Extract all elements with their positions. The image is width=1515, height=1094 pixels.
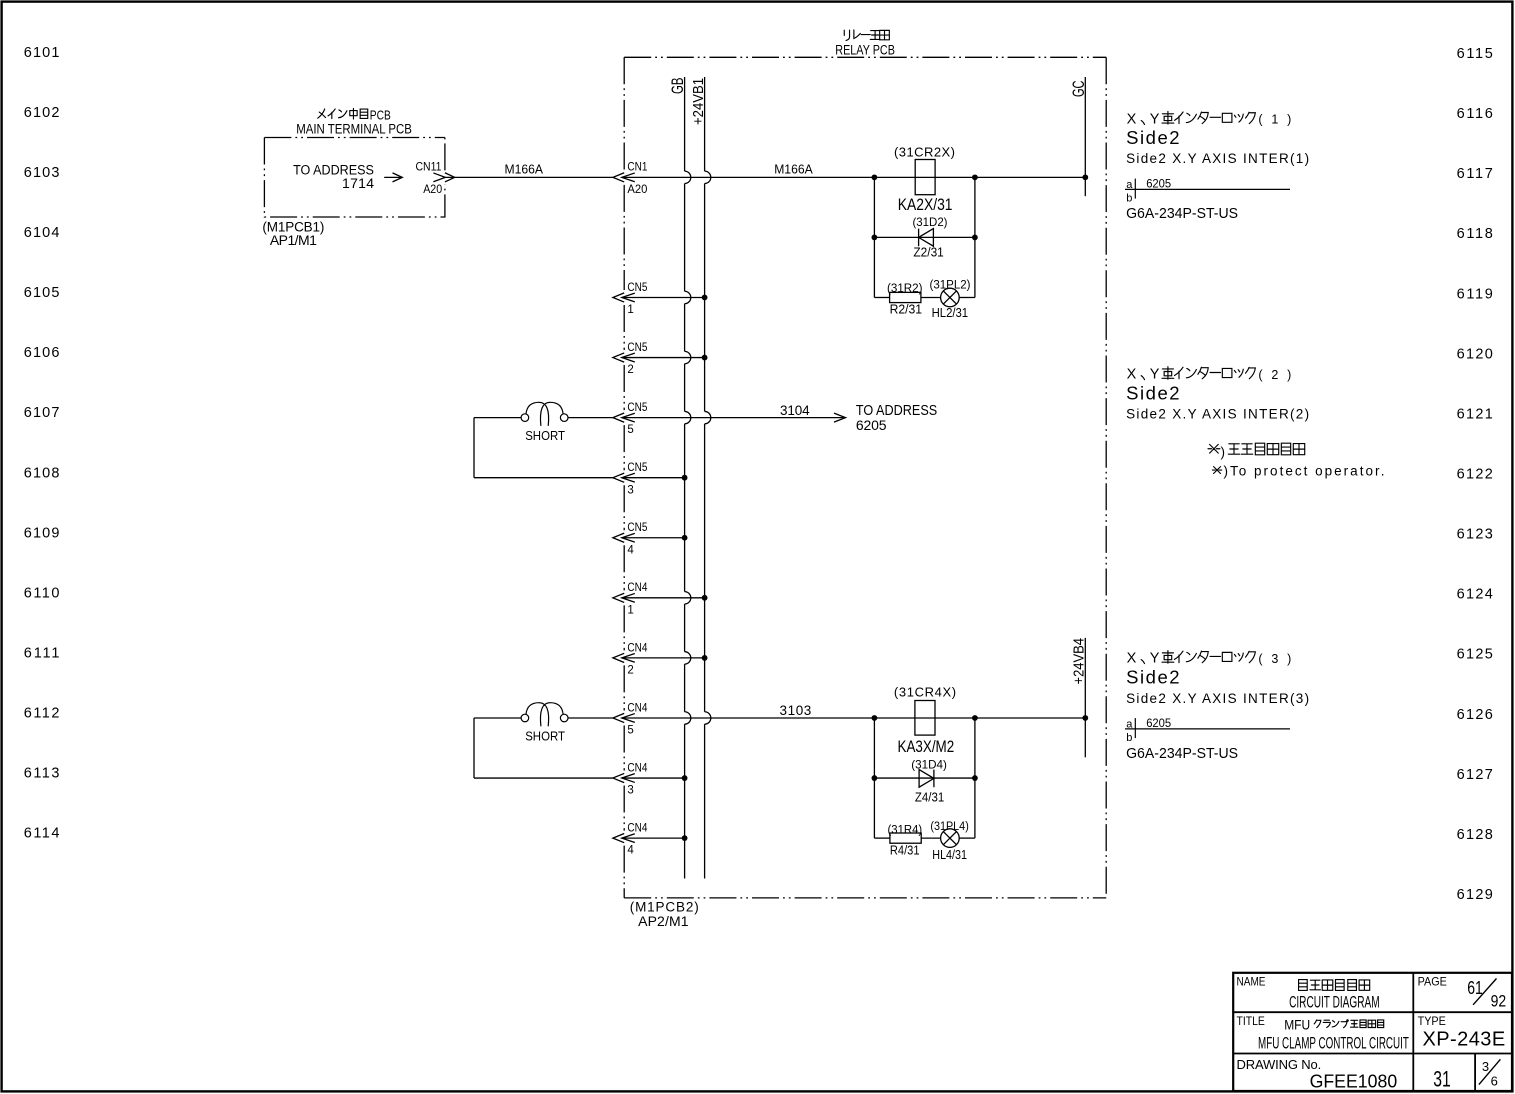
svg-text:6117: 6117 [1457,166,1493,182]
connector CN5 pin 3 [613,462,648,496]
svg-text:5: 5 [627,725,633,737]
svg-text:6122: 6122 [1457,466,1493,482]
svg-text:+24VB1: +24VB1 [691,78,707,125]
svg-text:6125: 6125 [1457,647,1493,663]
connector CN1 pin A20 [613,162,648,196]
connector CN5 pin 5 [613,402,648,436]
wire CN4-4 to GB [622,837,685,839]
svg-text:CN1: CN1 [627,162,647,174]
node junction left (row 6103) [872,174,878,180]
svg-text:6101: 6101 [24,45,60,61]
label (31CR2X) [894,145,955,160]
svg-text:6123: 6123 [1457,527,1493,543]
svg-text:A20: A20 [423,184,442,196]
svg-text:CN4: CN4 [627,642,648,654]
svg-text:3: 3 [1482,1059,1489,1074]
title block sheet 31 [1433,1067,1451,1092]
lamp HL=HL2/31 [941,288,960,307]
bus label +24VB1 [691,78,707,125]
svg-text:Side2 X.Y AXIS INTER(1): Side2 X.Y AXIS INTER(1) [1126,151,1309,166]
grid line numbers 6115-6129 (right margin) [1457,46,1493,903]
svg-text:(31CR4X): (31CR4X) [894,685,956,700]
title block PAGE 61/92 [1418,974,1507,1010]
annotation X,Y axis interlock (2) title [1127,367,1292,383]
svg-text:)To protect operator.: )To protect operator. [1224,463,1385,478]
svg-text:SHORT: SHORT [525,429,565,443]
svg-text:KA2X/31: KA2X/31 [898,196,953,214]
label R4/31 [890,842,920,857]
node junction left (row 6112) [872,715,878,721]
connector CN4 pin 1 [613,582,648,616]
annotation Side2 (2) [1126,382,1180,403]
junction CN4-2 on +24VB1 [702,655,708,661]
label HL2/31 [932,305,969,320]
title block NAME / CIRCUIT DIAGRAM [1237,974,1380,1011]
label R2/31 [890,302,923,317]
svg-text:(31D4): (31D4) [911,758,947,772]
node junction right (row 6113) [972,775,978,781]
node junction at +24VB4 [1082,715,1088,721]
bus line +24VB4 [1084,638,1086,757]
svg-text:2: 2 [627,665,633,677]
wire CN5-3 to GB [622,477,685,479]
svg-text:6106: 6106 [24,345,60,361]
svg-text:6120: 6120 [1457,346,1493,362]
svg-text:6129: 6129 [1457,887,1493,903]
wire resistor to lamp [921,296,941,298]
note ※)To protect operator. [1212,463,1384,478]
svg-text:MFU CLAMP CONTROL CIRCUIT: MFU CLAMP CONTROL CIRCUIT [1258,1034,1409,1053]
svg-text:6116: 6116 [1457,106,1493,122]
annotation Side2 X.Y AXIS INTER(2) [1126,406,1309,421]
wire CN5-4 to GB [622,537,685,539]
node junction right (row 6103) [972,174,978,180]
title block sheet 3/6 [1479,1059,1501,1089]
svg-text:CN5: CN5 [627,522,647,534]
wire M166A (left segment) [445,176,613,178]
wire resistor row 6105 left [874,296,889,298]
text TO ADDRESS 6205 [856,403,937,433]
svg-text:Y: Y [1150,112,1160,128]
svg-text:61: 61 [1467,978,1483,998]
label (31R2) [887,283,923,295]
svg-text:6102: 6102 [24,105,60,121]
svg-text:(31R2): (31R2) [887,283,923,295]
node junction left (row 6104) [872,235,878,241]
connector CN5 pin 1 [613,282,648,316]
resistor R=R2/31 [890,292,921,302]
svg-text:CN4: CN4 [627,823,648,835]
svg-text:6: 6 [1491,1074,1498,1089]
svg-text:X: X [1127,112,1137,128]
svg-text:a: a [1126,179,1133,191]
svg-text:PCB: PCB [370,109,391,123]
label (31R4) [888,825,923,837]
svg-text:GFEE1080: GFEE1080 [1310,1071,1398,1092]
svg-text:6205: 6205 [856,417,887,433]
wire net 3104 [622,413,846,422]
svg-text:CN4: CN4 [627,582,648,594]
main terminal PCB boundary box (M1PCB1) [264,138,445,218]
label KA2X/31 [898,196,953,214]
wire resistor row 6114 left [874,837,890,839]
svg-text:31: 31 [1433,1067,1451,1092]
svg-text:3103: 3103 [780,703,812,718]
svg-text:R2/31: R2/31 [890,302,923,317]
svg-text:HL4/31: HL4/31 [932,847,967,862]
svg-text:CN5: CN5 [627,282,647,294]
svg-text:HL2/31: HL2/31 [932,305,969,320]
wire lamp to right vertical (lower) [959,837,975,839]
svg-text:MFU: MFU [1284,1018,1310,1033]
jumper SHORT (CN4-5 to CN4-3) [474,703,613,778]
svg-text:SHORT: SHORT [525,729,565,743]
svg-text:3: 3 [627,484,633,496]
svg-text:G6A-234P-ST-US: G6A-234P-ST-US [1126,746,1238,762]
svg-text:CN5: CN5 [627,402,647,414]
label HL4/31 [932,847,967,862]
label (31PL2) [930,279,971,291]
relay coil U=KA3X/M2 [915,701,935,736]
wire CN4-3 to GB [622,777,685,779]
relay coil U=KA2X/31 [915,160,935,195]
title block TITLE / MFU CLAMP CONTROL CIRCUIT [1237,1014,1409,1052]
svg-text:TITLE: TITLE [1237,1014,1265,1028]
svg-text:+24VB4: +24VB4 [1072,638,1088,685]
label (M1PCB2) AP2/M1 [630,900,699,929]
svg-text:5: 5 [627,424,633,436]
annotation Side2 X.Y AXIS INTER(3) [1126,691,1309,706]
label KA3X/M2 [898,738,955,756]
svg-text:MAIN TERMINAL PCB: MAIN TERMINAL PCB [296,121,412,136]
connector CN4 pin 3 [613,762,648,796]
net label 3103 [780,703,812,718]
svg-text:4: 4 [627,544,634,556]
svg-text:6112: 6112 [24,706,60,722]
annotation X,Y axis interlock (1) title [1127,112,1292,128]
branch wire left vertical (KA3X) [873,718,875,838]
svg-text:6113: 6113 [24,766,60,782]
annotation Side2 (3) [1126,666,1180,687]
net label 3104 [780,403,810,418]
svg-text:6105: 6105 [24,285,60,301]
annotation Side2 (1) [1126,127,1180,148]
junction CN4-4 on GB [682,835,688,841]
label (31CR4X) [894,685,956,700]
connector CN4 pin 5 [613,702,648,736]
note ※)作業者保護用 [1208,443,1305,459]
svg-text:1: 1 [627,604,633,616]
bus line +24VB1 [705,77,711,879]
label (31D2) [913,215,948,229]
svg-text:(31R4): (31R4) [888,825,923,837]
svg-text:GB: GB [669,78,687,95]
part number G6A-234P-ST-US (1) [1126,206,1238,222]
junction CN5-2 on +24VB1 [702,355,708,361]
svg-text:X: X [1127,367,1137,383]
svg-text:G6A-234P-ST-US: G6A-234P-ST-US [1126,206,1238,222]
svg-text:6126: 6126 [1457,707,1493,723]
wire diode row 6104 [874,236,975,238]
svg-text:X: X [1127,651,1137,667]
junction CN4-1 on +24VB1 [702,595,708,601]
wire row 6103 CN1 to GC [622,176,1086,178]
annotation Side2 X.Y AXIS INTER(1) [1126,151,1309,166]
svg-text:GC: GC [1070,80,1088,97]
svg-text:3: 3 [627,785,633,797]
title block frame [1233,973,1512,1091]
diode D=Z2/31 [919,229,934,247]
svg-text:6103: 6103 [24,165,60,181]
svg-text:6111: 6111 [24,646,60,662]
grid line numbers 6101-6114 (left margin) [24,45,60,842]
svg-text:PAGE: PAGE [1418,974,1447,988]
svg-text:CN5: CN5 [627,342,647,354]
svg-text:R4/31: R4/31 [890,842,920,857]
svg-text:Y: Y [1150,651,1160,667]
svg-text:2: 2 [627,364,633,376]
svg-text:(31PL2): (31PL2) [930,279,971,291]
diode D=Z4/31 [919,770,934,788]
svg-text:Side2: Side2 [1126,382,1180,403]
svg-text:CIRCUIT DIAGRAM: CIRCUIT DIAGRAM [1289,993,1380,1012]
relay PCB boundary box (M1PCB2) [624,57,1106,898]
label (31PL4) [930,821,969,833]
wire diode row 6113 [874,777,975,779]
node junction right (row 6112) [972,715,978,721]
svg-text:(31PL4): (31PL4) [930,821,969,833]
relay contact a/b 6205 (1) [1125,178,1290,204]
jumper SHORT (CN5-5 to CN5-3) [474,402,613,477]
svg-text:AP2/M1: AP2/M1 [638,913,689,929]
connector CN5 pin 4 [613,522,648,556]
svg-text:Side2 X.Y AXIS INTER(3): Side2 X.Y AXIS INTER(3) [1126,691,1309,706]
svg-text:DRAWING No.: DRAWING No. [1237,1057,1322,1072]
text TO ADDRESS 1714 [293,163,374,192]
svg-text:b: b [1126,192,1132,204]
label RELAY PCB [835,42,895,57]
connector CN4 pin 2 [613,642,648,676]
svg-text:CN4: CN4 [627,762,648,774]
wire lamp to right vertical [959,296,975,298]
svg-text:6104: 6104 [24,225,60,241]
svg-text:Side2: Side2 [1126,127,1180,148]
svg-text:1714: 1714 [342,175,374,191]
svg-text:6205: 6205 [1146,178,1171,190]
junction CN5-1 on +24VB1 [702,295,708,301]
svg-text:92: 92 [1491,992,1507,1011]
svg-text:6124: 6124 [1457,587,1493,603]
svg-text:Z2/31: Z2/31 [913,244,943,259]
bus label GC [1070,80,1088,97]
svg-text:M166A: M166A [774,161,813,176]
svg-text:6110: 6110 [24,585,60,601]
svg-text:4: 4 [627,845,634,857]
node junction right (row 6104) [972,235,978,241]
title block TYPE XP-243E [1418,1014,1506,1051]
node junction at GC [1082,174,1088,180]
branch wire right vertical (KA2X) [974,177,976,297]
label リレー基板 [844,30,889,41]
bus label GB [669,78,687,95]
net label M166A [505,161,544,176]
title block DRAWING No. GFEE1080 [1237,1057,1398,1092]
wire CN5-1 to +24VB1 [622,296,705,298]
svg-text:(31D2): (31D2) [913,215,948,229]
junction CN5-3 on GB [682,475,688,481]
svg-text:A20: A20 [627,184,647,196]
connector CN4 pin 4 [613,823,648,857]
svg-text:b: b [1126,732,1132,744]
svg-text:Y: Y [1150,367,1160,383]
svg-text:6205: 6205 [1146,718,1171,730]
branch wire right vertical (KA3X) [974,718,976,838]
svg-text:6107: 6107 [24,405,60,421]
svg-text:TYPE: TYPE [1418,1014,1446,1028]
label (31D4) [911,758,947,772]
wire resistor to lamp (lower) [921,837,940,839]
svg-text:3104: 3104 [780,403,810,418]
bus line GC [1084,77,1086,196]
svg-text:6115: 6115 [1457,46,1493,62]
svg-text:6119: 6119 [1457,286,1493,302]
annotation X,Y axis interlock (3) title [1127,651,1292,667]
svg-text:AP1/M1: AP1/M1 [270,232,317,248]
svg-text:6114: 6114 [24,826,60,842]
svg-text:6127: 6127 [1457,767,1493,783]
svg-text:Side2: Side2 [1126,666,1180,687]
part number G6A-234P-ST-US (3) [1126,746,1238,762]
svg-text:CN11: CN11 [416,162,442,174]
connector CN5 pin 2 [613,342,648,376]
svg-text:CN5: CN5 [627,462,647,474]
svg-text:M166A: M166A [505,161,544,176]
net label M166A (right segment) [774,161,813,176]
relay contact a/b 6205 (3) [1125,718,1290,744]
lamp HL=HL4/31 [941,829,960,848]
svg-text:1: 1 [627,304,633,316]
label (M1PCB1) AP1/M1 [262,220,324,249]
svg-text:6108: 6108 [24,465,60,481]
junction CN4-3 on GB [682,775,688,781]
wire CN4-1 to +24VB1 [622,597,705,599]
wire CN5-2 to +24VB1 [622,357,705,359]
svg-text:Side2 X.Y AXIS INTER(2): Side2 X.Y AXIS INTER(2) [1126,406,1309,421]
branch wire left vertical (KA2X) [873,177,875,297]
node junction left (row 6113) [872,775,878,781]
junction CN5-4 on GB [682,535,688,541]
label メイン中継PCB [318,109,391,123]
svg-text:Z4/31: Z4/31 [915,789,944,804]
svg-text:KA3X/M2: KA3X/M2 [898,738,955,756]
svg-text:6121: 6121 [1457,406,1493,422]
svg-text:6128: 6128 [1457,827,1493,843]
wire row 6112 CN4-5 to +24VB4 [622,717,1086,719]
bus label +24VB4 [1072,638,1088,685]
label Z2/31 [913,244,943,259]
label Z4/31 [915,789,944,804]
bus line GB [685,77,691,879]
svg-text:6109: 6109 [24,525,60,541]
svg-text:): ) [1221,445,1226,460]
svg-text:6118: 6118 [1457,226,1493,242]
svg-text:XP-243E: XP-243E [1423,1029,1506,1051]
svg-text:NAME: NAME [1237,974,1266,988]
svg-text:RELAY PCB: RELAY PCB [835,42,895,57]
connector CN11 pin A20 [416,162,455,197]
svg-text:CN4: CN4 [627,702,648,714]
resistor R=R4/31 [890,833,921,843]
svg-text:a: a [1126,719,1133,731]
svg-text:(31CR2X): (31CR2X) [894,145,955,160]
arrow to address 1714 [384,173,402,182]
wire CN4-2 to +24VB1 [622,657,705,659]
label MAIN TERMINAL PCB [296,121,412,136]
